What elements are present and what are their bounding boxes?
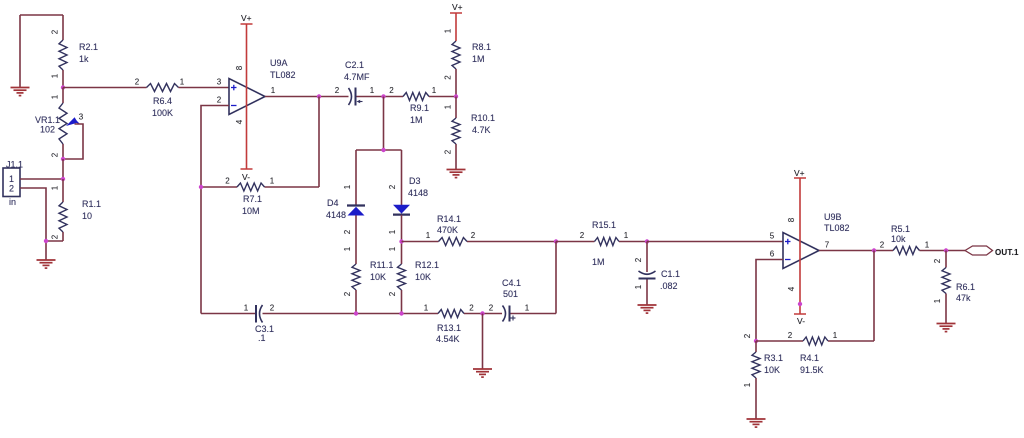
svg-text:4: 4 — [235, 119, 244, 124]
svg-text:1: 1 — [624, 231, 629, 240]
resistor R3.1 — [743, 333, 783, 419]
ground — [473, 369, 492, 377]
svg-text:470K: 470K — [437, 225, 458, 235]
svg-text:1: 1 — [271, 86, 276, 95]
svg-text:2: 2 — [489, 304, 494, 313]
svg-text:R10.1: R10.1 — [471, 113, 495, 123]
resistor R2.1 — [51, 15, 99, 88]
svg-text:R13.1: R13.1 — [437, 323, 461, 333]
svg-text:2: 2 — [343, 229, 352, 234]
svg-text:1: 1 — [925, 241, 930, 250]
svg-text:1: 1 — [9, 174, 14, 184]
svg-text:1: 1 — [444, 104, 453, 109]
wire — [819, 250, 893, 252]
node B — [61, 157, 65, 161]
wire — [63, 87, 147, 89]
resistor R9.1 — [389, 86, 456, 125]
svg-text:2: 2 — [217, 96, 222, 105]
wire — [20, 178, 63, 180]
svg-text:7: 7 — [825, 241, 830, 250]
resistor R6.4 — [135, 78, 185, 119]
connector J1.1 — [3, 160, 23, 208]
svg-text:U9A: U9A — [270, 58, 288, 68]
svg-text:8: 8 — [235, 65, 244, 70]
svg-text:501: 501 — [503, 289, 518, 299]
diode D4 — [326, 184, 365, 234]
svg-text:R6.1: R6.1 — [956, 282, 975, 292]
node K — [554, 239, 558, 243]
svg-text:.1: .1 — [258, 333, 266, 343]
svg-text:R5.1: R5.1 — [891, 224, 910, 234]
port OUT.1 — [965, 246, 1019, 257]
capacitor C3.1 — [244, 304, 275, 344]
svg-text:2: 2 — [51, 152, 60, 157]
svg-text:J1.1: J1.1 — [6, 160, 23, 170]
svg-text:10k: 10k — [891, 234, 906, 244]
svg-text:4: 4 — [787, 286, 796, 291]
wire — [201, 313, 556, 315]
svg-text:TL082: TL082 — [824, 223, 850, 233]
svg-text:4148: 4148 — [326, 210, 346, 220]
svg-text:2: 2 — [880, 241, 885, 250]
wire — [356, 215, 402, 264]
node F — [199, 185, 203, 189]
wire — [46, 240, 63, 242]
svg-text:2: 2 — [634, 257, 643, 262]
op-amp U9A — [217, 58, 296, 124]
svg-text:2: 2 — [270, 304, 275, 313]
capacitor C4.1 — [489, 278, 530, 322]
resistor R4.1 — [756, 331, 874, 375]
wire — [357, 96, 404, 98]
svg-text:V+: V+ — [452, 2, 463, 12]
svg-text:2: 2 — [9, 184, 14, 194]
capacitor C2.1 — [335, 60, 375, 106]
svg-text:OUT.1: OUT.1 — [995, 248, 1019, 257]
svg-text:3: 3 — [79, 113, 84, 122]
svg-text:10K: 10K — [370, 272, 386, 282]
wire — [356, 97, 402, 206]
svg-text:1: 1 — [426, 231, 431, 240]
svg-text:.082: .082 — [660, 281, 678, 291]
svg-text:2: 2 — [388, 291, 397, 296]
svg-text:2: 2 — [469, 304, 474, 313]
svg-text:1: 1 — [244, 304, 249, 313]
wire — [756, 260, 783, 342]
svg-text:10: 10 — [82, 211, 92, 221]
svg-text:1: 1 — [270, 177, 275, 186]
node P — [354, 311, 358, 315]
node L — [645, 239, 649, 243]
resistor R7.1 — [201, 177, 319, 217]
power V- — [241, 169, 253, 182]
node O — [754, 339, 758, 343]
resistor R1.1 — [51, 179, 102, 241]
svg-text:R12.1: R12.1 — [415, 260, 439, 270]
wire — [482, 314, 484, 370]
ground — [447, 170, 466, 178]
svg-text:V-: V- — [797, 316, 805, 326]
svg-text:1: 1 — [833, 331, 838, 340]
svg-text:2: 2 — [933, 258, 942, 263]
node H — [454, 94, 458, 98]
svg-text:1: 1 — [424, 304, 429, 313]
svg-text:91.5K: 91.5K — [800, 365, 824, 375]
svg-text:4.7MF: 4.7MF — [344, 72, 370, 82]
resistor R14.1 — [402, 214, 557, 246]
node Q — [399, 311, 403, 315]
svg-text:6: 6 — [770, 250, 775, 259]
svg-text:2: 2 — [388, 184, 397, 189]
wire — [20, 15, 63, 88]
svg-text:1: 1 — [388, 229, 397, 234]
svg-text:1: 1 — [933, 298, 942, 303]
svg-text:10M: 10M — [242, 206, 260, 216]
svg-text:2: 2 — [788, 331, 793, 340]
svg-text:2: 2 — [444, 75, 453, 80]
resistor R11.1 — [343, 246, 393, 313]
svg-text:8: 8 — [787, 217, 796, 222]
svg-text:4.7K: 4.7K — [472, 125, 491, 135]
node M — [872, 248, 876, 252]
svg-text:VR1.1: VR1.1 — [35, 115, 60, 125]
wire — [20, 188, 46, 260]
ground — [638, 305, 657, 313]
node D — [44, 239, 48, 243]
wire — [179, 78, 230, 88]
node I — [381, 148, 385, 152]
wire — [201, 106, 229, 314]
svg-text:2: 2 — [225, 177, 230, 186]
svg-text:4148: 4148 — [408, 188, 428, 198]
power V+ — [450, 2, 463, 41]
node N — [944, 248, 948, 252]
op-amp U9B — [770, 212, 850, 291]
svg-text:R14.1: R14.1 — [437, 214, 461, 224]
svg-text:R3.1: R3.1 — [764, 353, 783, 363]
power V+ — [794, 168, 806, 314]
svg-text:R15.1: R15.1 — [592, 220, 616, 230]
svg-text:2: 2 — [343, 291, 352, 296]
ground — [11, 88, 30, 96]
svg-text:1M: 1M — [410, 115, 423, 125]
node E — [317, 94, 321, 98]
svg-text:102: 102 — [40, 125, 55, 135]
ground — [937, 324, 956, 332]
svg-text:2: 2 — [580, 231, 585, 240]
svg-text:R2.1: R2.1 — [79, 42, 98, 52]
svg-text:1: 1 — [51, 185, 60, 190]
svg-text:1M: 1M — [472, 54, 485, 64]
svg-text:1: 1 — [343, 184, 352, 189]
svg-text:R4.1: R4.1 — [800, 353, 819, 363]
svg-text:V-: V- — [242, 172, 250, 182]
svg-text:U9B: U9B — [824, 212, 842, 222]
svg-text:C1.1: C1.1 — [661, 269, 680, 279]
wire — [265, 96, 349, 98]
resistor R15.1 — [556, 220, 647, 267]
svg-text:C4.1: C4.1 — [502, 278, 521, 288]
potentiometer VR1.1 — [35, 88, 84, 160]
diode D3 — [388, 176, 428, 234]
node C — [61, 177, 65, 181]
svg-text:1: 1 — [525, 304, 530, 313]
node J — [399, 239, 403, 243]
svg-text:2: 2 — [135, 78, 140, 87]
svg-text:D3: D3 — [409, 176, 421, 186]
svg-text:10K: 10K — [415, 272, 431, 282]
svg-text:10K: 10K — [764, 365, 780, 375]
svg-text:1M: 1M — [592, 257, 605, 267]
wire — [318, 97, 320, 188]
svg-text:1: 1 — [388, 246, 397, 251]
svg-text:1: 1 — [444, 28, 453, 33]
wire — [62, 159, 64, 179]
wire — [873, 251, 875, 342]
svg-text:2: 2 — [743, 333, 752, 338]
resistor R8.1 — [444, 28, 492, 96]
svg-text:2: 2 — [335, 86, 340, 95]
power V+ — [241, 13, 253, 169]
svg-text:R8.1: R8.1 — [472, 42, 491, 52]
svg-text:1: 1 — [343, 246, 352, 251]
svg-text:1: 1 — [51, 73, 60, 78]
node A — [61, 85, 65, 89]
svg-text:1: 1 — [370, 86, 375, 95]
svg-text:V+: V+ — [241, 13, 252, 23]
resistor R5.1 — [880, 224, 965, 255]
svg-text:1k: 1k — [79, 54, 89, 64]
svg-text:TL082: TL082 — [270, 70, 296, 80]
svg-text:100K: 100K — [152, 108, 173, 118]
capacitor C1.1 — [634, 242, 680, 306]
svg-text:D4: D4 — [327, 198, 339, 208]
svg-text:2: 2 — [51, 234, 60, 239]
svg-text:3: 3 — [217, 78, 222, 87]
wire — [647, 241, 783, 243]
svg-text:1: 1 — [743, 382, 752, 387]
wire — [63, 124, 83, 159]
svg-text:2: 2 — [444, 149, 453, 154]
svg-text:4.54K: 4.54K — [436, 334, 460, 344]
resistor R6.1 — [933, 251, 975, 324]
svg-text:R7.1: R7.1 — [243, 194, 262, 204]
node R — [480, 311, 484, 315]
ground — [37, 260, 56, 268]
svg-text:in: in — [9, 197, 16, 207]
svg-text:R6.4: R6.4 — [153, 96, 172, 106]
resistor R12.1 — [388, 242, 439, 314]
ground — [747, 419, 766, 427]
svg-text:1: 1 — [634, 284, 643, 289]
svg-text:R1.1: R1.1 — [82, 199, 101, 209]
power V- — [794, 302, 806, 326]
svg-text:1: 1 — [432, 86, 437, 95]
svg-text:1: 1 — [51, 94, 60, 99]
svg-text:2: 2 — [471, 231, 476, 240]
svg-text:R11.1: R11.1 — [370, 260, 393, 270]
svg-text:V+: V+ — [794, 168, 805, 178]
resistor R10.1 — [444, 97, 496, 170]
svg-text:C2.1: C2.1 — [345, 60, 364, 70]
node G — [381, 94, 385, 98]
svg-text:1: 1 — [180, 78, 185, 87]
svg-text:2: 2 — [389, 86, 394, 95]
svg-text:5: 5 — [770, 232, 775, 241]
svg-text:47k: 47k — [956, 293, 971, 303]
svg-text:2: 2 — [51, 29, 60, 34]
svg-text:R9.1: R9.1 — [410, 103, 429, 113]
resistor R13.1 — [424, 304, 475, 345]
wire — [555, 242, 557, 314]
